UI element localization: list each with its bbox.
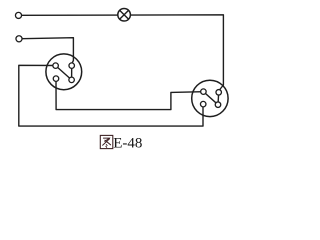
svg-text:E-48: E-48 xyxy=(113,136,142,152)
